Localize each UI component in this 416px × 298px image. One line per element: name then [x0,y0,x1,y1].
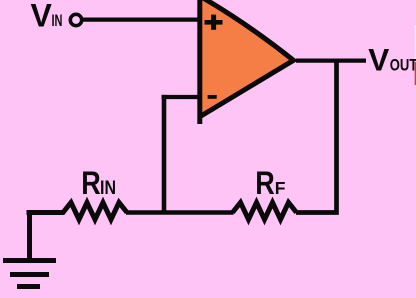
ground [3,261,56,287]
wire output [296,58,366,62]
wire RIN to RF (junction node) [126,210,234,215]
resistor RF [233,203,297,220]
op-amp U1 top and bottom edges [201,0,294,116]
svg-text:IN: IN [52,11,63,30]
svg-text:IN: IN [100,178,116,199]
wire left vertical (inverting input down to junction) [162,95,167,213]
op-amp + input marker [205,15,223,30]
wire ground stub [27,210,32,258]
terminal VIN [70,14,81,25]
svg-text:V: V [31,0,53,33]
white edge artifact [415,25,416,59]
wire VIN to op-amp + input [83,17,202,21]
svg-text:F: F [275,178,286,198]
svg-text:R: R [81,165,101,201]
op-amp - input marker [208,95,217,99]
wire feedback vertical + bottom run to RF [296,61,337,213]
svg-text:V: V [368,42,389,78]
op-amp U1 body fill [199,0,294,120]
red edge artifact [415,62,416,85]
wire - input stub [162,95,204,99]
op-amp U1 left edge [197,0,202,124]
svg-text:OUT: OUT [390,55,416,74]
svg-text:R: R [255,165,274,201]
resistor RIN [27,203,128,220]
